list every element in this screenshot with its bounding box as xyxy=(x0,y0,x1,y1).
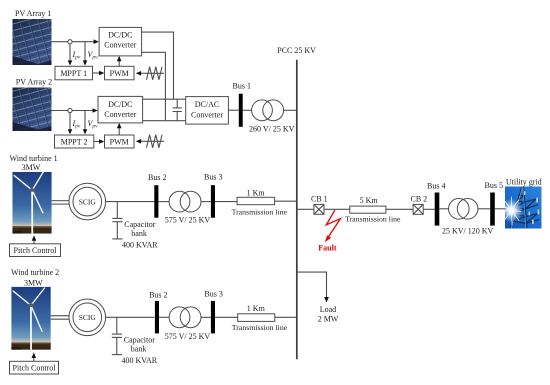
svg-text:575 V/ 25 KV: 575 V/ 25 KV xyxy=(165,332,211,341)
shaft WT2 to SCIG2 xyxy=(51,316,69,320)
svg-text:Wind turbine 1: Wind turbine 1 xyxy=(10,154,58,163)
capacitor DC link xyxy=(173,99,182,121)
svg-text:CB 2: CB 2 xyxy=(411,195,428,204)
bus Bus 4 xyxy=(435,193,440,226)
svg-text:Bus 2: Bus 2 xyxy=(148,173,166,182)
Pitch Control 2 box xyxy=(10,361,59,374)
wire Bus2 to T4 wt2 xyxy=(159,316,169,318)
svg-text:Converter: Converter xyxy=(191,110,223,119)
generator SCIG 2 xyxy=(69,299,106,336)
svg-text:25 KV/ 120 KV: 25 KV/ 120 KV xyxy=(442,227,494,236)
transformer T3 25KV/120KV xyxy=(449,199,478,220)
transformer T2 575V/25KV wt1 xyxy=(169,191,201,212)
wire MPPT2 to PWM2 xyxy=(94,141,102,143)
wire DC/AC to Bus 1 xyxy=(228,109,238,111)
DC/DC converter 1 box xyxy=(99,27,142,56)
svg-text:Transmission line: Transmission line xyxy=(232,323,288,332)
breaker CB 1 xyxy=(314,204,324,214)
wire Bus2 to T2 wt1 xyxy=(158,201,169,203)
svg-text:Pitch Control: Pitch Control xyxy=(14,246,58,255)
wire DC/DC1 output minus xyxy=(142,52,166,120)
svg-text:SCIG: SCIG xyxy=(79,313,97,322)
generator SCIG 1 xyxy=(69,183,106,220)
wire pitch control 2 arrow xyxy=(33,356,35,362)
shaft WT1 to SCIG1 xyxy=(52,201,69,205)
svg-text:Transmission line: Transmission line xyxy=(345,215,401,224)
svg-text:DC/DC: DC/DC xyxy=(108,30,132,39)
wire PCC bus vertical xyxy=(296,60,298,360)
bus Bus 2 wt2 xyxy=(155,301,159,334)
MPPT 2 box xyxy=(55,135,94,148)
PWM 2 box xyxy=(105,135,135,148)
wire T4 to Bus 3 wt2 xyxy=(201,316,211,318)
wire SCIG2 to Bus 2 xyxy=(106,316,155,318)
svg-text:1 Km: 1 Km xyxy=(247,304,266,313)
wire Ipv sense 2 xyxy=(69,113,71,131)
wire line5km to CB2 xyxy=(386,208,413,210)
wire line1km wt2 to PCC xyxy=(275,316,297,318)
svg-text:Bus 4: Bus 4 xyxy=(427,181,445,190)
wire Ipv sense 1 xyxy=(69,44,71,62)
svg-text:3MW: 3MW xyxy=(22,163,41,172)
wire load branch xyxy=(297,272,327,299)
wire PWM1 to DC/DC1 gate xyxy=(118,58,120,66)
wire CB2 to Bus 4 xyxy=(423,208,435,210)
wire Bus3 to line1km wt2 xyxy=(215,316,238,318)
wire Bus3 to line1 wt1 xyxy=(215,201,237,203)
DC/AC converter box xyxy=(186,97,229,125)
bus Bus 3 wt2 xyxy=(211,301,215,334)
wire Vpv sense 1 xyxy=(84,42,86,63)
wire Bus1 to transformer T1 xyxy=(243,109,252,111)
svg-text:Bus 5: Bus 5 xyxy=(485,181,503,190)
svg-text:SCIG: SCIG xyxy=(79,197,97,206)
wire Bus5 to utility grid xyxy=(495,208,505,210)
wire CB1 to line5km xyxy=(324,208,350,210)
svg-text:PV Array 2: PV Array 2 xyxy=(16,78,52,87)
wire pitch control 1 arrow xyxy=(33,238,35,243)
PV array PV1 photo xyxy=(13,19,52,65)
wire PCC to CB1 xyxy=(297,208,314,210)
svg-text:DC/AC: DC/AC xyxy=(195,100,219,109)
svg-text:DC/DC: DC/DC xyxy=(108,100,132,109)
bus Bus 5 xyxy=(490,193,495,226)
svg-text:Converter: Converter xyxy=(104,41,136,50)
PV array PV2 photo xyxy=(13,88,52,132)
wire T3 to Bus 5 xyxy=(478,208,490,210)
svg-text:PV Array 1: PV Array 1 xyxy=(15,9,51,18)
wire MPPT1 to PWM1 xyxy=(93,72,102,74)
capacitor bank 2 xyxy=(112,317,122,354)
svg-text:Load: Load xyxy=(320,305,336,314)
capacitor bank 1 xyxy=(112,202,122,239)
node PV2 tap xyxy=(68,108,72,112)
wire DC link plus rail xyxy=(143,98,186,100)
svg-text:400 KVAR: 400 KVAR xyxy=(122,241,158,250)
svg-text:Transmission line: Transmission line xyxy=(232,207,288,216)
wire Vpv sense 2 xyxy=(84,111,86,132)
wind turbine WT1 photo xyxy=(12,172,51,234)
DC/DC converter 2 box xyxy=(98,96,143,123)
bus Bus 1 xyxy=(239,94,243,127)
wire DC/DC1 output plus xyxy=(142,32,174,99)
wire T1 to PCC xyxy=(284,109,297,111)
wire DC link minus rail xyxy=(143,120,186,122)
transmission line 5Km xyxy=(350,206,386,213)
svg-text:Bus 1: Bus 1 xyxy=(233,82,251,91)
svg-text:MPPT 2: MPPT 2 xyxy=(61,137,88,146)
svg-text:Utility grid: Utility grid xyxy=(506,178,542,187)
svg-text:Bus 3: Bus 3 xyxy=(204,290,222,299)
wind turbine WT2 photo xyxy=(11,287,51,350)
fault bolt xyxy=(326,210,340,238)
svg-text:PWM: PWM xyxy=(110,69,129,78)
transformer T1 260V/25KV xyxy=(252,100,284,121)
bus Bus 3 wt1 xyxy=(211,185,215,218)
MPPT 1 box xyxy=(55,66,93,80)
PWM 1 box xyxy=(105,66,135,80)
wire line1 to PCC wt1 xyxy=(275,200,297,202)
svg-text:575 V/ 25 KV: 575 V/ 25 KV xyxy=(165,216,211,225)
svg-text:MPPT 1: MPPT 1 xyxy=(60,69,87,78)
svg-text:CB 1: CB 1 xyxy=(311,195,328,204)
bus Bus 2 wt1 xyxy=(154,185,158,218)
svg-text:bank: bank xyxy=(131,345,147,354)
svg-text:PCC 25 KV: PCC 25 KV xyxy=(277,46,316,55)
wire T2 to Bus 3 wt1 xyxy=(201,201,211,203)
carrier wave symbol 1 xyxy=(136,67,164,80)
svg-text:Bus 3: Bus 3 xyxy=(204,173,222,182)
svg-text:400 KVAR: 400 KVAR xyxy=(122,356,158,365)
svg-text:Capacitor: Capacitor xyxy=(124,336,155,345)
Pitch Control 1 box xyxy=(10,244,61,257)
svg-text:1 Km: 1 Km xyxy=(247,188,266,197)
svg-text:Capacitor: Capacitor xyxy=(124,220,155,229)
svg-text:Wind turbine 2: Wind turbine 2 xyxy=(11,268,59,277)
svg-text:5 Km: 5 Km xyxy=(360,196,379,205)
transmission line 1Km wt1 xyxy=(237,197,275,204)
wire SCIG1 to Bus 2 xyxy=(106,201,155,203)
wire PV1 to DC/DC converter 1 xyxy=(52,41,97,43)
node PV1 tap xyxy=(68,40,72,44)
wire Bus4 to T3 xyxy=(439,208,448,210)
wire PWM2 to DC/DC2 gate xyxy=(118,125,120,135)
transmission line 1Km wt2 xyxy=(238,314,275,322)
svg-text:Pitch Control: Pitch Control xyxy=(13,364,57,373)
svg-text:260 V/ 25 KV: 260 V/ 25 KV xyxy=(249,125,295,134)
svg-text:Fault: Fault xyxy=(318,244,337,253)
transformer T4 575V/25KV wt2 xyxy=(169,307,201,328)
svg-text:3MW: 3MW xyxy=(24,279,43,288)
breaker CB 2 xyxy=(413,204,423,214)
utility grid photo xyxy=(500,187,542,229)
carrier wave symbol 2 xyxy=(136,135,164,148)
svg-text:Bus 2: Bus 2 xyxy=(149,291,167,300)
svg-text:Converter: Converter xyxy=(104,110,136,119)
svg-text:2 MW: 2 MW xyxy=(318,315,339,324)
wire PV2 to DC/DC converter 2 xyxy=(52,110,96,112)
svg-text:bank: bank xyxy=(131,229,147,238)
svg-text:PWM: PWM xyxy=(110,137,129,146)
